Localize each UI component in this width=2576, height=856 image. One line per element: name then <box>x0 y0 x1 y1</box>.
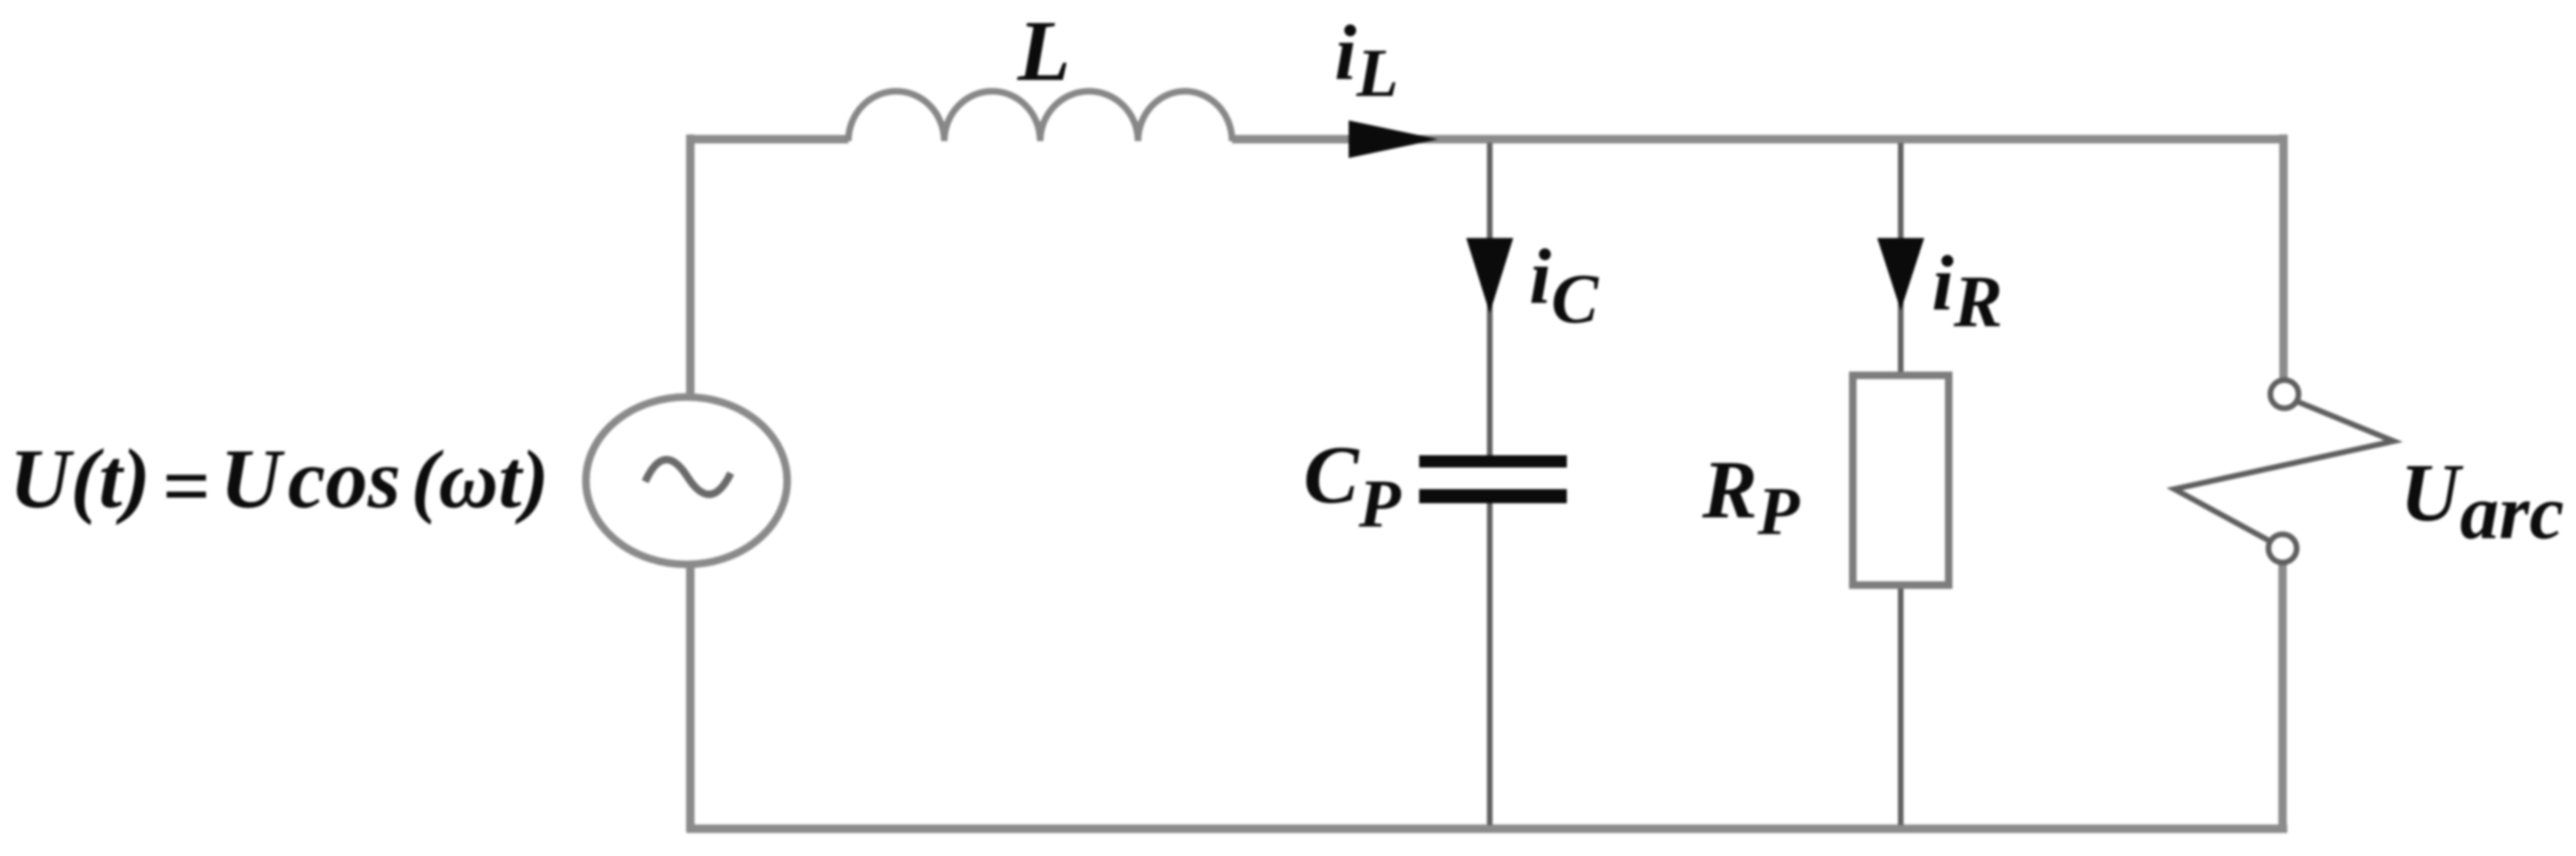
svg-text:(ωt): (ωt) <box>411 435 549 526</box>
svg-text:U(t): U(t) <box>9 433 150 526</box>
svg-text:Uarc: Uarc <box>2400 448 2564 555</box>
svg-text:RP: RP <box>1701 445 1801 549</box>
svg-text:iC: iC <box>1529 233 1599 339</box>
svg-text:=: = <box>162 440 210 533</box>
svg-text:iR: iR <box>1932 240 2002 342</box>
svg-text:CP: CP <box>1304 430 1402 542</box>
svg-text:U: U <box>220 433 285 526</box>
svg-text:cos: cos <box>288 433 401 526</box>
svg-text:L: L <box>1017 3 1070 99</box>
svg-text:iL: iL <box>1335 9 1399 111</box>
